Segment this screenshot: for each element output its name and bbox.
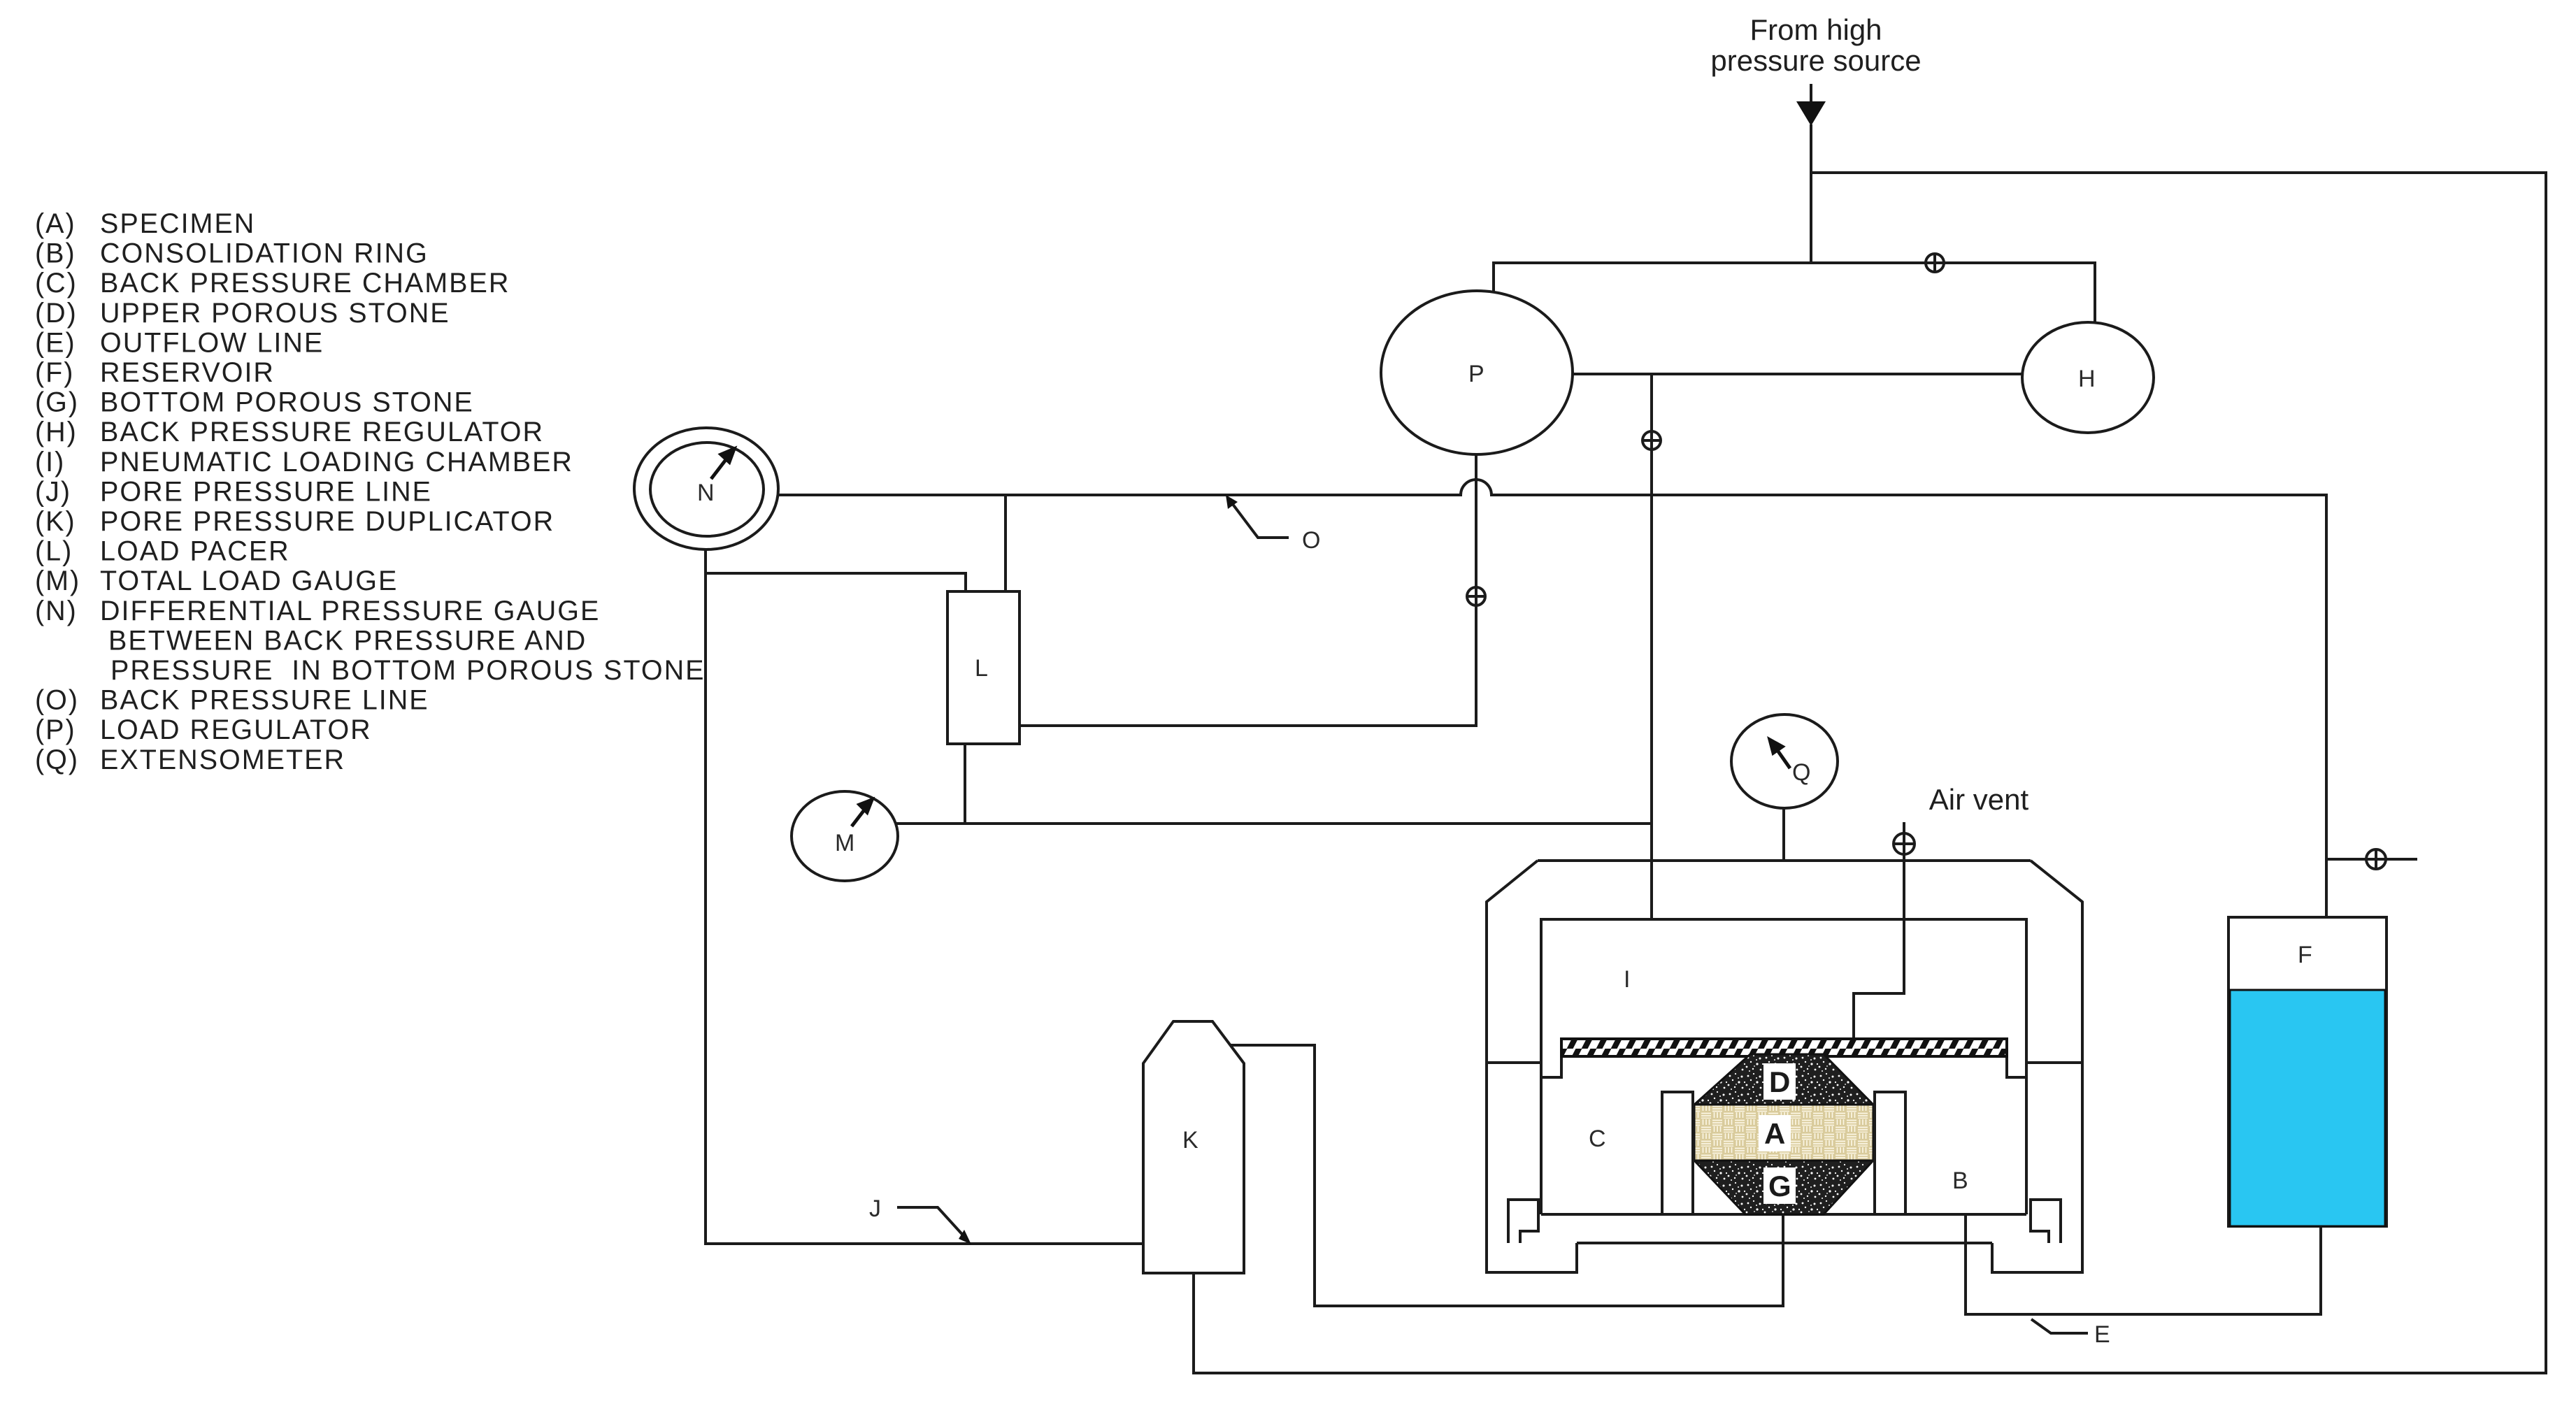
svg-text:(J): (J) [35,476,71,507]
svg-text:DIFFERENTIAL PRESSURE GAUGE: DIFFERENTIAL PRESSURE GAUGE [100,596,600,626]
svg-text:Air vent: Air vent [1929,783,2029,816]
svg-text:BACK PRESSURE LINE: BACK PRESSURE LINE [100,685,429,716]
svg-text:PRESSURE IN BOTTOM POROUS STO: PRESSURE IN BOTTOM POROUS STONE [110,655,705,686]
svg-text:(O): (O) [35,685,79,716]
svg-text:C: C [1589,1126,1606,1152]
svg-text:L: L [975,655,988,682]
svg-text:(D): (D) [35,298,78,329]
svg-text:pressure source: pressure source [1710,44,1921,77]
svg-text:(L): (L) [35,536,73,567]
svg-text:RESERVOIR: RESERVOIR [100,357,275,388]
svg-text:PORE PRESSURE DUPLICATOR: PORE PRESSURE DUPLICATOR [100,506,554,537]
svg-text:SPECIMEN: SPECIMEN [100,208,255,239]
svg-text:H: H [2078,366,2096,392]
svg-text:LOAD REGULATOR: LOAD REGULATOR [100,714,372,745]
svg-text:PORE PRESSURE LINE: PORE PRESSURE LINE [100,476,432,507]
svg-text:B: B [1952,1167,1968,1194]
svg-text:(K): (K) [35,506,76,537]
svg-text:(M): (M) [35,566,80,596]
svg-text:(F): (F) [35,357,74,388]
svg-text:BETWEEN BACK PRESSURE AND: BETWEEN BACK PRESSURE AND [108,625,587,656]
svg-text:BOTTOM POROUS STONE: BOTTOM POROUS STONE [100,387,474,418]
svg-text:Q: Q [1792,759,1810,786]
svg-text:F: F [2298,942,2312,968]
svg-text:PNEUMATIC LOADING CHAMBER: PNEUMATIC LOADING CHAMBER [100,447,573,477]
svg-text:G: G [1768,1170,1791,1202]
svg-text:P: P [1468,361,1484,387]
svg-text:EXTENSOMETER: EXTENSOMETER [100,745,345,775]
svg-text:M: M [835,830,854,856]
svg-text:(C): (C) [35,268,78,299]
svg-text:J: J [869,1195,881,1222]
svg-text:LOAD PACER: LOAD PACER [100,536,290,567]
svg-text:UPPER POROUS STONE: UPPER POROUS STONE [100,298,450,329]
svg-text:D: D [1769,1065,1790,1098]
svg-text:(A): (A) [35,208,76,239]
svg-text:N: N [697,480,715,506]
svg-text:CONSOLIDATION RING: CONSOLIDATION RING [100,238,429,269]
svg-text:(B): (B) [35,238,76,269]
svg-text:(N): (N) [35,596,78,626]
svg-text:E: E [2094,1321,2110,1348]
svg-text:(P): (P) [35,714,76,745]
svg-text:(G): (G) [35,387,79,418]
svg-text:(Q): (Q) [35,745,79,775]
svg-text:(I): (I) [35,447,65,477]
svg-text:BACK PRESSURE REGULATOR: BACK PRESSURE REGULATOR [100,417,544,447]
svg-text:TOTAL LOAD GAUGE: TOTAL LOAD GAUGE [100,566,398,596]
svg-text:I: I [1624,966,1630,993]
svg-text:From high: From high [1749,13,1882,46]
svg-text:(E): (E) [35,327,76,358]
svg-text:BACK PRESSURE CHAMBER: BACK PRESSURE CHAMBER [100,268,510,299]
svg-text:OUTFLOW LINE: OUTFLOW LINE [100,327,324,358]
svg-text:O: O [1302,527,1320,554]
svg-text:K: K [1182,1127,1198,1154]
svg-text:A: A [1764,1117,1785,1150]
svg-text:(H): (H) [35,417,78,447]
